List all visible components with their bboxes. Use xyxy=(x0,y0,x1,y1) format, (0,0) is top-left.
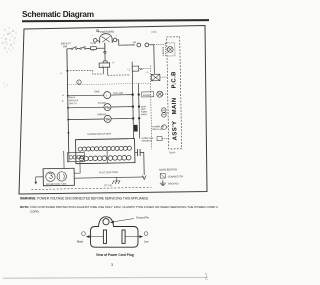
svg-text:DMFTH: DMFTH xyxy=(69,103,77,105)
svg-text:Blade: Blade xyxy=(77,241,84,244)
svg-text:SWE: SWE xyxy=(94,90,100,93)
wire: fuse to relay xyxy=(96,43,105,49)
turntable motor row wire xyxy=(68,118,104,121)
chassis ground symbol xyxy=(112,177,120,184)
T1 primary winding xyxy=(78,146,131,151)
svg-text:NOTE EDITION: NOTE EDITION xyxy=(159,168,177,171)
stacked sensor circles xyxy=(161,108,166,113)
rail junction ticks xyxy=(66,70,69,134)
svg-text:RELAY (W): RELAY (W) xyxy=(152,128,163,131)
magnetron V1 box xyxy=(43,168,74,186)
title underline rule xyxy=(22,19,209,22)
wire: relay to varistor xyxy=(117,40,135,46)
legend ground symbol xyxy=(160,180,166,186)
svg-text:FUSE: FUSE xyxy=(90,43,96,45)
ground pin arrow xyxy=(112,219,134,223)
left rail wire xyxy=(67,49,69,153)
svg-text:Schematic Diagram: Schematic Diagram xyxy=(22,10,94,19)
svg-text:P.C.B: P.C.B xyxy=(171,71,177,89)
wire magnetron to filament winding xyxy=(74,162,80,174)
svg-text:MAGNETRON TUBE: MAGNETRON TUBE xyxy=(46,183,67,186)
switch S2 xyxy=(77,48,80,50)
svg-text:PWUP: PWUP xyxy=(69,97,76,99)
svg-text:WARNING: POWER VOLTAGE DISCON: WARNING: POWER VOLTAGE DISCONNECTED BEFO… xyxy=(20,197,148,201)
svg-text:FM: FM xyxy=(105,106,110,110)
svg-text:SW: SW xyxy=(63,44,68,48)
interlock monitor component xyxy=(132,66,139,71)
T1 secondary winding xyxy=(79,155,131,161)
earth symbol right xyxy=(142,175,146,179)
magnetron filament circles xyxy=(46,172,56,182)
T1 core divider xyxy=(106,151,108,163)
line blade slot xyxy=(122,230,125,243)
legend connector symbol xyxy=(160,174,165,179)
svg-text:TB-04: TB-04 xyxy=(169,151,176,154)
svg-text:NOTE: FOR CONTINUED PROTECTION: NOTE: FOR CONTINUED PROTECTION AGAINST F… xyxy=(20,205,218,209)
svg-text:Line: Line xyxy=(144,241,149,244)
svg-text:AMRUER: AMRUER xyxy=(69,99,79,102)
H.V. capacitor C1 xyxy=(135,152,138,154)
svg-text:VA: VA xyxy=(133,40,137,44)
wire: switches to fuse xyxy=(86,47,91,49)
oven lamp row wire xyxy=(68,94,104,97)
svg-text:H.V.C 2100 TRIM: H.V.C 2100 TRIM xyxy=(99,171,118,174)
switch S1 xyxy=(71,48,73,50)
main pcb assembly dashed strip xyxy=(167,37,182,149)
secondary to chassis wire xyxy=(74,177,144,178)
line arrow xyxy=(125,236,141,238)
svg-text:MAIN: MAIN xyxy=(172,97,178,114)
fan motor row wire xyxy=(68,106,104,109)
power switch relay K1 xyxy=(93,33,117,43)
wire: cutout pins down xyxy=(102,67,104,74)
node under relay xyxy=(104,43,106,61)
schematic frame (tilted scan) xyxy=(19,26,207,195)
rail junction dots right xyxy=(131,93,140,119)
wire rails into transformer xyxy=(63,151,65,168)
svg-text:CONNECTOR: CONNECTOR xyxy=(168,175,184,178)
right rail B xyxy=(139,84,140,139)
svg-text:GROUND: GROUND xyxy=(168,182,179,185)
chassis dashed line xyxy=(31,187,151,189)
thermal cutout TC1 xyxy=(103,60,107,62)
wire: capacitor to earth xyxy=(140,152,144,175)
svg-text:3: 3 xyxy=(111,263,113,267)
svg-text:POWER(SW): POWER(SW) xyxy=(98,29,114,33)
connector block dark xyxy=(134,125,138,132)
wire: varistor to right drop xyxy=(149,45,155,74)
svg-text:SHOWA: SHOWA xyxy=(97,113,106,116)
svg-text:CORD.: CORD. xyxy=(30,210,40,214)
svg-text:MTSWD AWTSF MTR: MTSWD AWTSF MTR xyxy=(87,133,111,136)
neutral arrow xyxy=(88,236,103,238)
dotted control line xyxy=(68,83,151,85)
scan speckle noise top-left margin xyxy=(2,28,17,88)
dashed interlock wire xyxy=(67,70,103,74)
magnetron cathode earth arrow xyxy=(36,176,43,178)
svg-text:MATH: MATH xyxy=(141,113,147,116)
svg-text:ASS'Y: ASS'Y xyxy=(172,121,178,141)
T1 filament winding box xyxy=(67,153,84,162)
power cord plug outline xyxy=(91,217,139,247)
svg-text:Ground Pin: Ground Pin xyxy=(136,216,150,220)
svg-text:A BRAKE: A BRAKE xyxy=(162,46,165,56)
svg-text:SW RELAY: SW RELAY xyxy=(142,139,153,142)
H.V. transformer T1 box xyxy=(76,139,135,164)
scan squiggle bottom right xyxy=(205,273,208,280)
wire: left rail top to switches xyxy=(67,48,71,50)
svg-text:SWABFL: SWABFL xyxy=(143,94,153,97)
page bottom scan line xyxy=(3,276,208,279)
svg-text:(C.T.S): (C.T.S) xyxy=(104,184,112,187)
svg-text:TM: TM xyxy=(105,117,110,121)
thermistor row xyxy=(142,92,154,97)
neutral blade slot xyxy=(103,230,106,243)
svg-text:(+5V): (+5V) xyxy=(151,32,157,34)
node 1 junction circle xyxy=(77,80,81,84)
relay box on pcb feed xyxy=(151,74,160,81)
right rail A xyxy=(132,62,133,139)
svg-text:View of Power Cord Plug: View of Power Cord Plug xyxy=(96,253,134,257)
dashed pcb rail xyxy=(150,65,152,149)
ground pin hole xyxy=(103,219,109,225)
